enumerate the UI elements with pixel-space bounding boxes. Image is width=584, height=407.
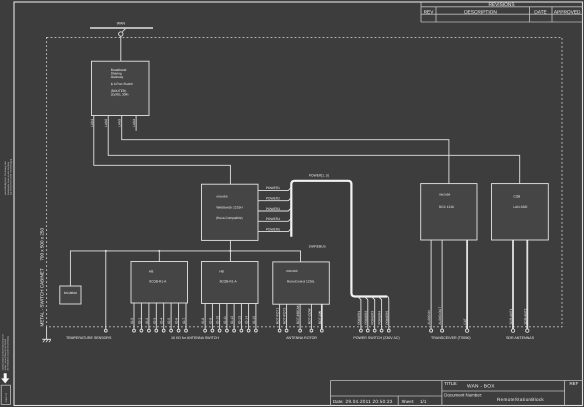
pin ROT-POT1 of U5	[276, 304, 280, 329]
pin LAN1 label	[90, 119, 94, 127]
svg-text:POWER3: POWER3	[371, 311, 375, 325]
svg-text:IO-12: IO-12	[230, 316, 234, 324]
svg-text:METAL - SWITCH CABINET 70: METAL - SWITCH CABINET 700 x 500 x 250	[40, 228, 45, 327]
label SDR ANTENNAS	[506, 336, 535, 340]
pin POWER5 of U2 with bus ripper	[258, 227, 291, 231]
margin note top-left	[4, 158, 12, 195]
pin AUDIO-OUT of U6	[438, 240, 442, 329]
power switch U2 (microbit WebSwitch 1216H)	[202, 184, 259, 240]
svg-text:POWER5: POWER5	[385, 311, 389, 325]
connector circle ROT-POT2	[285, 329, 288, 332]
svg-text:IO-11: IO-11	[223, 316, 227, 324]
wire LAN1 net	[94, 116, 231, 185]
label TEMPERATURE SENSORS	[66, 336, 112, 340]
connector circle ROT-CCW	[310, 329, 313, 332]
svg-text:unvollständig beim Zeichnung o: unvollständig beim Zeichnung oder	[4, 161, 7, 195]
svg-text:AUDIO-OUT: AUDIO-OUT	[438, 307, 442, 325]
connector circle POWER2	[366, 329, 369, 332]
cabinet label METAL - SWITCH CABINET 700 x 500 x 250	[40, 228, 45, 327]
pin POWER3 of U2 with bus ripper	[258, 207, 291, 211]
wire 1WIREBUS to HB2 top	[229, 251, 231, 262]
connector circle IO-2	[148, 329, 151, 332]
connector circle IO-1	[140, 329, 143, 332]
pin POWER1 of U2 with bus ripper	[258, 186, 291, 190]
svg-text:CAT: CAT	[463, 318, 467, 324]
pin IO-11 of U4	[223, 304, 227, 330]
connector circle SDR-ANT2	[526, 329, 529, 332]
svg-text:Patch 19: Patch 19	[5, 392, 8, 402]
pin IO-4 of U3	[160, 303, 164, 329]
svg-text:HB: HB	[149, 269, 153, 273]
relay board U4 (HB 8COB-R1-A)	[202, 262, 259, 304]
pin IO-8 of U4	[201, 304, 205, 330]
pin IO-10 of U4	[216, 304, 220, 330]
connector circle POWER3	[373, 329, 376, 332]
svg-text:Document Number:: Document Number:	[444, 393, 482, 398]
svg-text:COB: COB	[513, 195, 520, 199]
svg-text:POWER1: POWER1	[266, 186, 280, 190]
connector circle ROT-POT1	[278, 329, 281, 332]
connector circle IO-5	[170, 329, 173, 332]
svg-text:POWER5: POWER5	[266, 227, 280, 231]
svg-text:IO-14: IO-14	[245, 316, 249, 324]
svg-text:IO-6: IO-6	[175, 318, 179, 325]
wire LAN4 stub (unconnected)	[135, 116, 137, 131]
pin IO-14 of U4	[245, 304, 249, 330]
connector circle AUDIO-IN	[430, 329, 433, 332]
wire WebSwitch bottom to 1WIREBUS	[229, 240, 231, 251]
pin POWER2 of U2 with bus ripper	[258, 197, 291, 201]
svg-text:POWER4: POWER4	[378, 311, 382, 325]
svg-text:IO-9: IO-9	[208, 318, 212, 325]
connector circle ROT-CW	[320, 329, 323, 332]
label POWER SWITCH (230V AC)	[353, 336, 399, 340]
router U1 (Broadband Sharing Gateway ZyXEL 334)	[92, 61, 150, 115]
svg-text:IO-3: IO-3	[152, 318, 156, 325]
svg-text:1WIREBUS: 1WIREBUS	[309, 245, 327, 249]
wire POWER3 to power-switch connector	[371, 297, 375, 330]
svg-text:POWER[1..5]: POWER[1..5]	[309, 174, 329, 178]
svg-text:ROT-POT2: ROT-POT2	[283, 308, 287, 325]
svg-text:Gateway: Gateway	[111, 75, 124, 79]
svg-text:ROT-POT1: ROT-POT1	[276, 308, 280, 325]
node WAN (input symbol)	[90, 22, 153, 32]
connector circle IO-0	[133, 329, 136, 332]
pin POWER4 of U2 with bus ripper	[258, 217, 291, 221]
svg-text:die Gedanken an jeder Anwendun: die Gedanken an jeder Anwendung	[7, 336, 10, 371]
pin IO-0 of U3	[130, 303, 134, 329]
svg-text:TEMPERATURE SENSORS: TEMPERATURE SENSORS	[66, 336, 112, 340]
svg-text:Sheet:: Sheet:	[402, 399, 415, 404]
svg-text:DS18B20: DS18B20	[64, 291, 78, 295]
svg-text:8COB-R1-A: 8COB-R1-A	[220, 280, 238, 284]
connector circle CAT	[465, 329, 468, 332]
svg-text:IO-10: IO-10	[216, 316, 220, 324]
svg-text:8COB-R1-A: 8COB-R1-A	[149, 280, 167, 284]
svg-text:IO-8: IO-8	[201, 318, 205, 325]
svg-text:APPROVED: APPROVED	[554, 9, 581, 15]
svg-text:weiter, wenn Pläne ist auf Gru: weiter, wenn Pläne ist auf Grund	[4, 338, 7, 370]
connector circle IO-6	[177, 329, 180, 332]
junction HB1 top	[158, 250, 160, 252]
connector circle AUDIO-OUT	[441, 329, 444, 332]
svg-text:16 I/O for ANTENNA SWITCH: 16 I/O for ANTENNA SWITCH	[171, 336, 219, 340]
svg-text:POWER3: POWER3	[266, 207, 280, 211]
pin IO-12 of U4	[230, 304, 234, 330]
svg-text:Date:: Date:	[333, 399, 344, 404]
svg-text:SDR-ANT1: SDR-ANT1	[509, 308, 513, 324]
svg-text:DESCRIPTION: DESCRIPTION	[464, 9, 497, 15]
WAN connector circle	[119, 32, 123, 36]
connector circle IO-8	[204, 329, 207, 332]
relay board U3 (HB 8COB-R1-A)	[131, 262, 188, 304]
wire POWER4 to power-switch connector	[378, 297, 382, 330]
connector circle IO-3	[155, 329, 158, 332]
svg-text:ROT-CCW: ROT-CCW	[307, 308, 311, 325]
pin AUDIO-IN of U6	[427, 240, 431, 329]
connector circle IO-11	[226, 329, 229, 332]
svg-text:TITLE:: TITLE:	[444, 381, 457, 386]
wire LAN2 net	[108, 116, 520, 184]
wire 1WIREBUS to HB1 top	[158, 251, 160, 262]
margin note bottom-left	[1, 334, 9, 371]
pin IO-2 of U3	[145, 303, 149, 329]
connector circle ROT-BREAK	[299, 329, 302, 332]
svg-text:(ZyXEL 334): (ZyXEL 334)	[111, 93, 129, 97]
svg-text:RCC 1216: RCC 1216	[439, 205, 454, 209]
junction WebSwitch/HB2	[229, 250, 231, 252]
svg-text:LAN1: LAN1	[90, 119, 94, 127]
connector circle IO-13	[240, 329, 243, 332]
svg-text:RotorControl 1216L: RotorControl 1216L	[287, 280, 315, 284]
pin SDR-ANT2 of U7	[523, 240, 527, 329]
svg-text:LAN4: LAN4	[132, 119, 136, 127]
svg-text:WAN - BOX: WAN - BOX	[467, 384, 495, 390]
svg-text:IO-2: IO-2	[145, 318, 149, 325]
connector circle IO-7	[185, 329, 188, 332]
pin IO-6 of U3	[175, 303, 179, 329]
connector circle POWER4	[380, 329, 383, 332]
svg-text:(Hexa Compatible): (Hexa Compatible)	[216, 216, 243, 220]
connector circle IO-4	[162, 329, 165, 332]
svg-text:AUDIO-IN: AUDIO-IN	[427, 310, 431, 325]
svg-text:REF: REF	[570, 381, 579, 386]
junction temp sensors	[105, 250, 107, 252]
connector circle IO-12	[233, 329, 236, 332]
bus label POWER[1..5]	[309, 174, 329, 178]
connector circle TEMP	[104, 329, 107, 332]
pin CAT of U6	[463, 240, 467, 329]
svg-text:ROT-BREAK: ROT-BREAK	[296, 304, 300, 324]
svg-text:microbit: microbit	[439, 193, 450, 197]
connector circle POWER1	[360, 329, 363, 332]
title block	[331, 381, 583, 406]
svg-text:POWER1: POWER1	[357, 311, 361, 325]
revisions table	[421, 2, 583, 22]
pin ROT-POT2 of U5	[283, 304, 287, 329]
svg-text:microbit: microbit	[286, 269, 297, 273]
svg-text:SDR ANTENNAS: SDR ANTENNAS	[506, 336, 535, 340]
pin IO-9 of U4	[208, 304, 212, 330]
pin ROT-CCW of U5	[307, 304, 311, 329]
pin LAN4 label	[132, 119, 136, 127]
bus POWER[1..5]	[291, 181, 387, 297]
svg-text:DATE: DATE	[534, 9, 546, 15]
label TRANSCEIVER (TS590)	[431, 336, 471, 340]
pin ROT-BREAK of U5	[296, 304, 300, 329]
wire POWER5 to power-switch connector	[385, 297, 389, 330]
rotor controller U5 (microbit RotorControl 1216L)	[273, 262, 330, 304]
svg-text:IO-1: IO-1	[137, 318, 141, 325]
svg-text:29.04.2011 20:50:23: 29.04.2011 20:50:23	[346, 399, 393, 404]
SDR receiver U7 (COB LAN-SDR)	[492, 184, 549, 240]
svg-text:WAN: WAN	[117, 22, 126, 26]
svg-text:SDR-ANT2: SDR-ANT2	[523, 308, 527, 324]
svg-text:LAN-SDR: LAN-SDR	[513, 205, 528, 209]
svg-text:LAN3: LAN3	[118, 119, 122, 127]
ground (chassis) at cabinet	[42, 327, 51, 342]
label 1WIREBUS	[309, 245, 327, 249]
svg-text:IO-0: IO-0	[130, 318, 134, 325]
svg-text:RemoteStationBlock: RemoteStationBlock	[497, 397, 544, 402]
svg-text:Zuständ durch Dokumentenschutz: Zuständ durch Dokumentenschutz ist	[1, 334, 4, 371]
svg-text:POWER SWITCH (230V AC): POWER SWITCH (230V AC)	[353, 336, 399, 340]
svg-text:IO-7: IO-7	[182, 318, 186, 325]
wire WAN to router	[120, 36, 122, 61]
connector circle IO-9	[211, 329, 214, 332]
margin stamp box	[1, 385, 10, 404]
svg-text:nur mit unserer schrift. Geneh: nur mit unserer schrift. Genehmigung	[9, 158, 12, 195]
wire 1WIREBUS to temp connector	[105, 251, 107, 329]
connector circle POWER5	[387, 329, 390, 332]
svg-text:ANTENNA ROTOR: ANTENNA ROTOR	[286, 336, 317, 340]
pin IO-5 of U3	[167, 303, 171, 329]
temperature sensor DS18B20	[60, 286, 81, 304]
pin IO-7 of U3	[182, 303, 186, 329]
pin SDR-ANT1 of U7	[509, 240, 513, 329]
pin IO-3 of U3	[152, 303, 156, 329]
pin IO-13 of U4	[237, 304, 241, 330]
svg-text:Weitergabe sowie an alle Recht: Weitergabe sowie an alle Rechten	[7, 161, 10, 195]
pin LAN2 label	[104, 119, 108, 127]
pin IO-15 of U4	[252, 304, 256, 330]
svg-text:IO-5: IO-5	[167, 318, 171, 325]
svg-text:1/1: 1/1	[420, 399, 427, 404]
svg-text:IO-4: IO-4	[160, 318, 164, 325]
radio control U6 (microbit RCC 1216)	[421, 184, 477, 240]
svg-text:ROT-CW: ROT-CW	[318, 310, 322, 324]
cabinet boundary (dashed)	[47, 37, 562, 326]
label 16 I/O for ANTENNA SWITCH	[171, 336, 219, 340]
label ANTENNA ROTOR	[286, 336, 317, 340]
svg-text:POWER2: POWER2	[364, 311, 368, 325]
svg-text:IO-13: IO-13	[237, 316, 241, 324]
svg-text:REVISIONS: REVISIONS	[488, 2, 514, 8]
svg-text:LAN2: LAN2	[104, 119, 108, 127]
pin IO-1 of U3	[137, 303, 141, 329]
svg-text:IO-15: IO-15	[252, 316, 256, 324]
connector circle IO-14	[247, 329, 250, 332]
svg-text:microbit: microbit	[216, 195, 227, 199]
svg-text:TRANSCEIVER (TS590): TRANSCEIVER (TS590)	[431, 336, 471, 340]
svg-text:& 4-Port-Switch: & 4-Port-Switch	[111, 82, 133, 86]
margin arrow icon	[1, 373, 9, 383]
wire POWER2 to power-switch connector	[364, 297, 368, 330]
connector circle IO-10	[218, 329, 221, 332]
wire LAN3 net	[122, 116, 449, 184]
pin ROT-CW of U5	[318, 304, 322, 329]
wire 1WIREBUS net	[70, 251, 300, 286]
svg-text:HB: HB	[219, 269, 223, 273]
svg-text:REV: REV	[424, 9, 435, 15]
pin LAN3 label	[118, 119, 122, 127]
svg-text:POWER2: POWER2	[266, 197, 280, 201]
wire POWER1 to power-switch connector	[357, 297, 361, 330]
connector circle IO-15	[255, 329, 258, 332]
connector circle SDR-ANT1	[511, 329, 514, 332]
svg-text:POWER4: POWER4	[266, 217, 280, 221]
svg-text:WebSwitch 1216H: WebSwitch 1216H	[216, 206, 243, 210]
